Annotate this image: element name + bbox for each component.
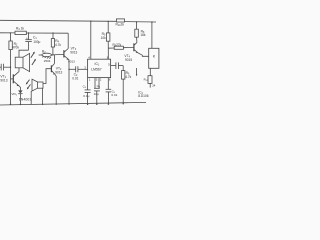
svg-text:8.D106: 8.D106 bbox=[138, 94, 149, 98]
svg-text:24: 24 bbox=[152, 83, 156, 87]
wire C1 to speaker B1 top bbox=[19, 50, 29, 57]
resistor R5 bbox=[107, 21, 109, 33]
svg-text:10k: 10k bbox=[101, 36, 107, 40]
svg-text:18k: 18k bbox=[140, 33, 146, 37]
svg-text:100μ: 100μ bbox=[33, 40, 40, 44]
capacitor C3 below pin1 bbox=[87, 78, 89, 90]
resistor R6 bbox=[122, 66, 124, 71]
svg-text:9013: 9013 bbox=[70, 50, 77, 54]
speaker B3 bbox=[38, 82, 43, 88]
capacitor C1 bbox=[28, 33, 30, 40]
relay K box bbox=[149, 48, 159, 68]
wire B3 bottom to ground bbox=[42, 88, 44, 104]
resistor R2 bbox=[9, 41, 12, 50]
svg-text:R101k: R101k bbox=[116, 23, 125, 28]
transistor VT2 (lower mid) bbox=[50, 65, 52, 72]
node R4 tap bbox=[52, 32, 53, 33]
wire R2 bottom to VT1 base and ground bbox=[10, 50, 12, 105]
svg-text:1N4001: 1N4001 bbox=[19, 98, 32, 102]
wire VT2 collector up to base line bbox=[53, 55, 55, 64]
svg-text:9015: 9015 bbox=[125, 58, 132, 62]
wire pin4 to rail bbox=[90, 21, 92, 59]
svg-text:R927k: R927k bbox=[113, 43, 122, 48]
svg-text:10μ: 10μ bbox=[94, 92, 99, 96]
svg-text:LM567: LM567 bbox=[91, 67, 101, 71]
wire VT2 base from B3 bbox=[43, 69, 51, 84]
resistor R8 bbox=[136, 22, 138, 29]
svg-text:IC1: IC1 bbox=[95, 62, 100, 67]
microphone B2 bbox=[42, 53, 52, 56]
node R5 junction bbox=[108, 21, 109, 22]
capacitor at left edge (cut) bbox=[0, 64, 2, 71]
wire B2 left stub bbox=[39, 54, 42, 56]
svg-text:+: + bbox=[26, 36, 28, 40]
svg-text:2504: 2504 bbox=[44, 59, 51, 63]
svg-text:4.7k: 4.7k bbox=[55, 43, 61, 47]
node C2 branch bbox=[68, 69, 69, 70]
wire VT1 emitter to diode bbox=[19, 86, 20, 90]
transistor VT4 bbox=[133, 43, 135, 51]
svg-text:470k: 470k bbox=[12, 46, 19, 50]
diode VD1 1N4001 bbox=[18, 90, 22, 93]
capacitor C6 right of IC bbox=[111, 65, 116, 67]
svg-text:0.01: 0.01 bbox=[72, 76, 78, 80]
resistor R9 bbox=[108, 47, 114, 49]
node C1 tap bbox=[28, 32, 29, 33]
resistor R4 bbox=[52, 33, 54, 39]
wire emitter terminal stub bbox=[136, 68, 138, 75]
wire mid supply rail y33 bbox=[0, 32, 15, 34]
resistor R12 below relay bbox=[148, 76, 152, 84]
node left cap junction bbox=[10, 67, 11, 68]
capacitor C2 bbox=[69, 68, 76, 70]
node R4 bottom junction bbox=[52, 54, 53, 55]
wire R2 top bbox=[9, 33, 11, 41]
transistor VT3 (upper mid) bbox=[63, 50, 65, 57]
node R8 rail junction bbox=[136, 21, 137, 22]
sound arrows B3 bbox=[26, 80, 29, 84]
capacitor C5 below pin6 bbox=[107, 78, 109, 90]
node junction R2 tap bbox=[10, 32, 11, 33]
wire VT2 emitter to ground bbox=[55, 74, 56, 104]
svg-text:R3 1k: R3 1k bbox=[16, 27, 24, 32]
wire horn stub to ground bbox=[30, 91, 32, 105]
wire bottom ground rail bbox=[0, 102, 146, 105]
svg-text:9013: 9013 bbox=[68, 60, 75, 64]
wire relay bottom bbox=[149, 68, 151, 75]
wire B2 right to VT3 base bbox=[52, 53, 64, 56]
wire VT3 collector to mid rail bbox=[67, 33, 69, 48]
svg-text:9013: 9013 bbox=[55, 70, 62, 74]
wire relay top bbox=[151, 22, 153, 48]
wire pin8 stub bbox=[107, 48, 109, 59]
sound arrows B1 to B2 bbox=[31, 52, 35, 57]
node relay rail junction bbox=[151, 21, 152, 22]
resistor R10 bbox=[116, 19, 124, 22]
resistor R3 bbox=[15, 31, 26, 34]
wire VT4 emitter to relay bbox=[138, 53, 149, 56]
wire VT3 emitter down to ground bbox=[68, 60, 70, 104]
svg-text:9013: 9013 bbox=[0, 79, 7, 83]
svg-text:0.01: 0.01 bbox=[111, 93, 117, 97]
capacitor C4 below pins5,2 bbox=[94, 78, 96, 89]
speaker B1 bbox=[15, 57, 23, 68]
svg-text:4.7k: 4.7k bbox=[125, 75, 131, 79]
svg-text:0.1μ: 0.1μ bbox=[83, 94, 89, 98]
transistor VT1 bbox=[12, 74, 14, 83]
op-amp IC1 LM567 box bbox=[88, 59, 111, 77]
wire top supply rail bbox=[0, 20, 116, 21]
wire B1 bottom to VT1 collector bbox=[18, 68, 20, 72]
